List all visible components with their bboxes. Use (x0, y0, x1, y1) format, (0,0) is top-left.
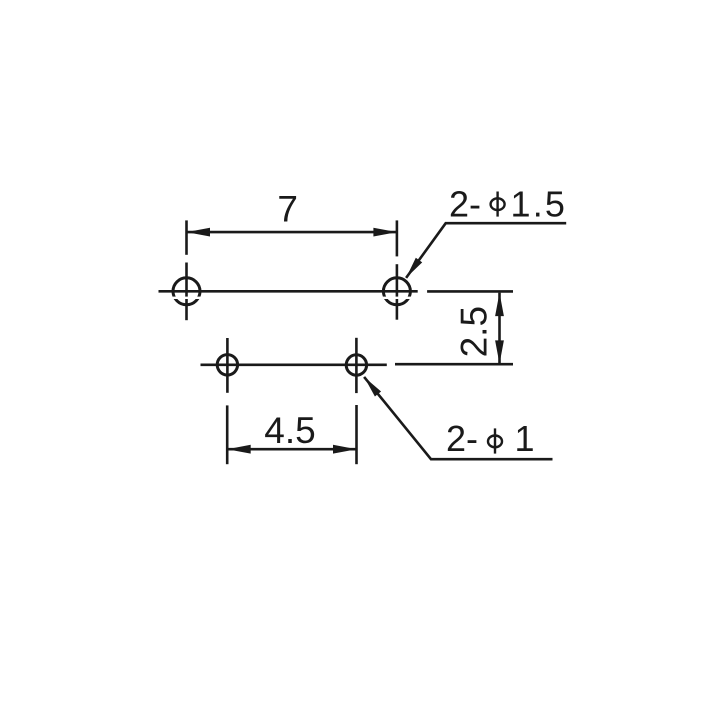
arrowhead left of dimension 7 (187, 228, 211, 237)
hole H1 top-left (Φ1.5) (173, 278, 200, 305)
scan break (white slit) across hole H2 (381, 297, 412, 299)
extension line left for dimension 4.5 (226, 405, 229, 464)
phi symbol of label 2-Φ1.5 (491, 192, 505, 217)
extension line left for dimension 7 (185, 220, 188, 254)
center line vertical through hole H2 (396, 264, 399, 320)
leader line for label 2-Φ1.5 (406, 223, 566, 278)
arrowhead right of dimension 7 (373, 228, 397, 237)
dimension line 2.5 (498, 293, 501, 364)
dimension line 7 (187, 231, 397, 234)
svg-text:1: 1 (515, 418, 535, 459)
extension line right for dimension 7 (396, 220, 399, 256)
hole H4 bottom-right (Φ1) (346, 355, 366, 375)
center line vertical through hole H3 (226, 338, 229, 393)
arrowhead of leader 2-Φ1.5 (points at hole H2) (406, 258, 422, 278)
extension line right for dimension 4.5 (355, 405, 358, 464)
svg-text:1.5: 1.5 (511, 184, 568, 225)
center line vertical through hole H1 (185, 263, 188, 321)
arrowhead of leader 2-Φ1 (points at hole H4) (364, 377, 381, 397)
dimension line 4.5 (227, 448, 356, 451)
center line horizontal through top row (159, 290, 418, 293)
leader line for label 2-Φ1 (364, 377, 552, 459)
center line horizontal through bottom row (201, 363, 387, 366)
center line vertical through hole H4 (355, 338, 358, 393)
svg-text:4.5: 4.5 (264, 410, 315, 451)
svg-text:2-: 2- (446, 418, 478, 459)
extension line bottom for dimension 2.5 (395, 363, 513, 366)
phi symbol of label 2-Φ1 (488, 428, 502, 453)
svg-text:7: 7 (277, 188, 298, 229)
arrowhead bottom of dimension 2.5 (495, 340, 504, 364)
arrowhead top of dimension 2.5 (495, 293, 504, 317)
extension line top for dimension 2.5 (427, 290, 513, 293)
svg-text:2.5: 2.5 (454, 306, 495, 357)
arrowhead left of dimension 4.5 (227, 445, 251, 454)
arrowhead right of dimension 4.5 (333, 445, 357, 454)
hole H3 bottom-left (Φ1) (217, 355, 237, 375)
hole H2 top-right (Φ1.5) (383, 278, 410, 305)
svg-text:2-: 2- (449, 184, 481, 225)
scan break (white slit) across hole H1 (171, 297, 203, 299)
